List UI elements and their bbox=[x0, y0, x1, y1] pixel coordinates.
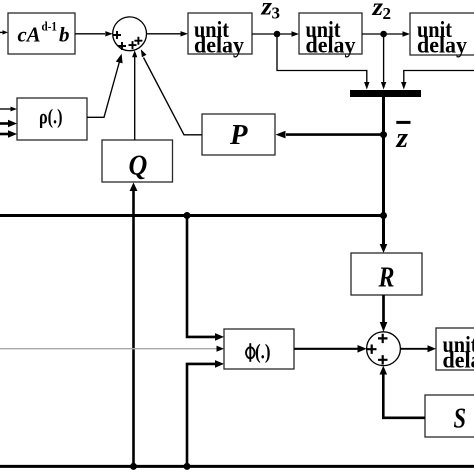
svg-text:z: z bbox=[395, 122, 408, 154]
svg-text:S: S bbox=[454, 404, 467, 435]
svg-text:ρ(.): ρ(.) bbox=[39, 105, 63, 129]
svg-text:delay: delay bbox=[417, 32, 467, 57]
svg-text:cA: cA bbox=[18, 22, 41, 46]
svg-text:P: P bbox=[229, 119, 248, 151]
svg-text:(.): (.) bbox=[255, 339, 271, 363]
svg-text:2: 2 bbox=[383, 4, 392, 23]
svg-text:b: b bbox=[59, 22, 70, 46]
svg-text:z: z bbox=[260, 0, 272, 20]
svg-text:delay: delay bbox=[443, 347, 474, 372]
svg-text:z: z bbox=[371, 0, 383, 21]
svg-text:delay: delay bbox=[306, 32, 356, 57]
svg-text:3: 3 bbox=[272, 3, 281, 22]
svg-text:R: R bbox=[378, 262, 395, 293]
svg-text:delay: delay bbox=[194, 32, 244, 57]
svg-text:Q: Q bbox=[129, 150, 148, 182]
svg-text:d-1: d-1 bbox=[42, 20, 58, 34]
